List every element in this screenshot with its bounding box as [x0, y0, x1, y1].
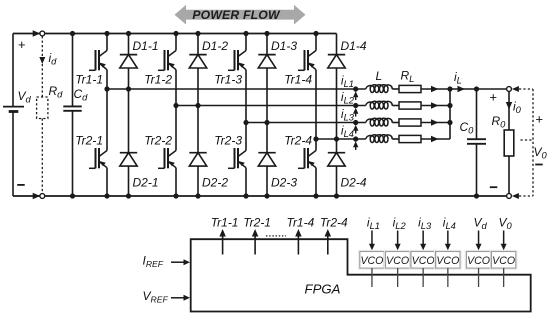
- svg-text:+: +: [489, 90, 497, 105]
- svg-text:+: +: [18, 37, 26, 52]
- svg-text:Tr1-2: Tr1-2: [144, 73, 172, 87]
- svg-text:D2-4: D2-4: [341, 176, 367, 190]
- svg-text:VCO: VCO: [412, 255, 435, 267]
- svg-text:VCO: VCO: [386, 255, 409, 267]
- svg-text:Tr1-4: Tr1-4: [287, 216, 315, 230]
- svg-text:VCO: VCO: [360, 255, 383, 267]
- svg-text:D2-3: D2-3: [271, 176, 297, 190]
- svg-text:POWER FLOW: POWER FLOW: [192, 8, 281, 22]
- svg-text:D1-1: D1-1: [133, 39, 159, 53]
- svg-text:VCO: VCO: [436, 255, 459, 267]
- svg-text:VCO: VCO: [467, 255, 490, 267]
- svg-text:L: L: [376, 69, 383, 83]
- svg-text:D2-2: D2-2: [202, 176, 228, 190]
- svg-text:D2-1: D2-1: [133, 176, 159, 190]
- svg-text:Tr2-4: Tr2-4: [320, 216, 348, 230]
- svg-text:Tr1-1: Tr1-1: [211, 216, 239, 230]
- svg-text:Tr2-2: Tr2-2: [144, 134, 172, 148]
- svg-text:Tr1-3: Tr1-3: [214, 73, 242, 87]
- svg-text:Tr2-1: Tr2-1: [75, 134, 103, 148]
- svg-text:Tr2-1: Tr2-1: [243, 216, 271, 230]
- svg-text:D1-3: D1-3: [271, 39, 297, 53]
- svg-text:VCO: VCO: [492, 255, 515, 267]
- svg-text:Tr1-4: Tr1-4: [284, 73, 312, 87]
- svg-text:+: +: [535, 112, 543, 127]
- svg-text:FPGA: FPGA: [305, 282, 341, 297]
- svg-text:D1-4: D1-4: [341, 39, 367, 53]
- svg-text:Tr1-1: Tr1-1: [75, 73, 103, 87]
- svg-text:Tr2-4: Tr2-4: [284, 134, 312, 148]
- svg-text:D1-2: D1-2: [202, 39, 228, 53]
- svg-text:Tr2-3: Tr2-3: [214, 134, 242, 148]
